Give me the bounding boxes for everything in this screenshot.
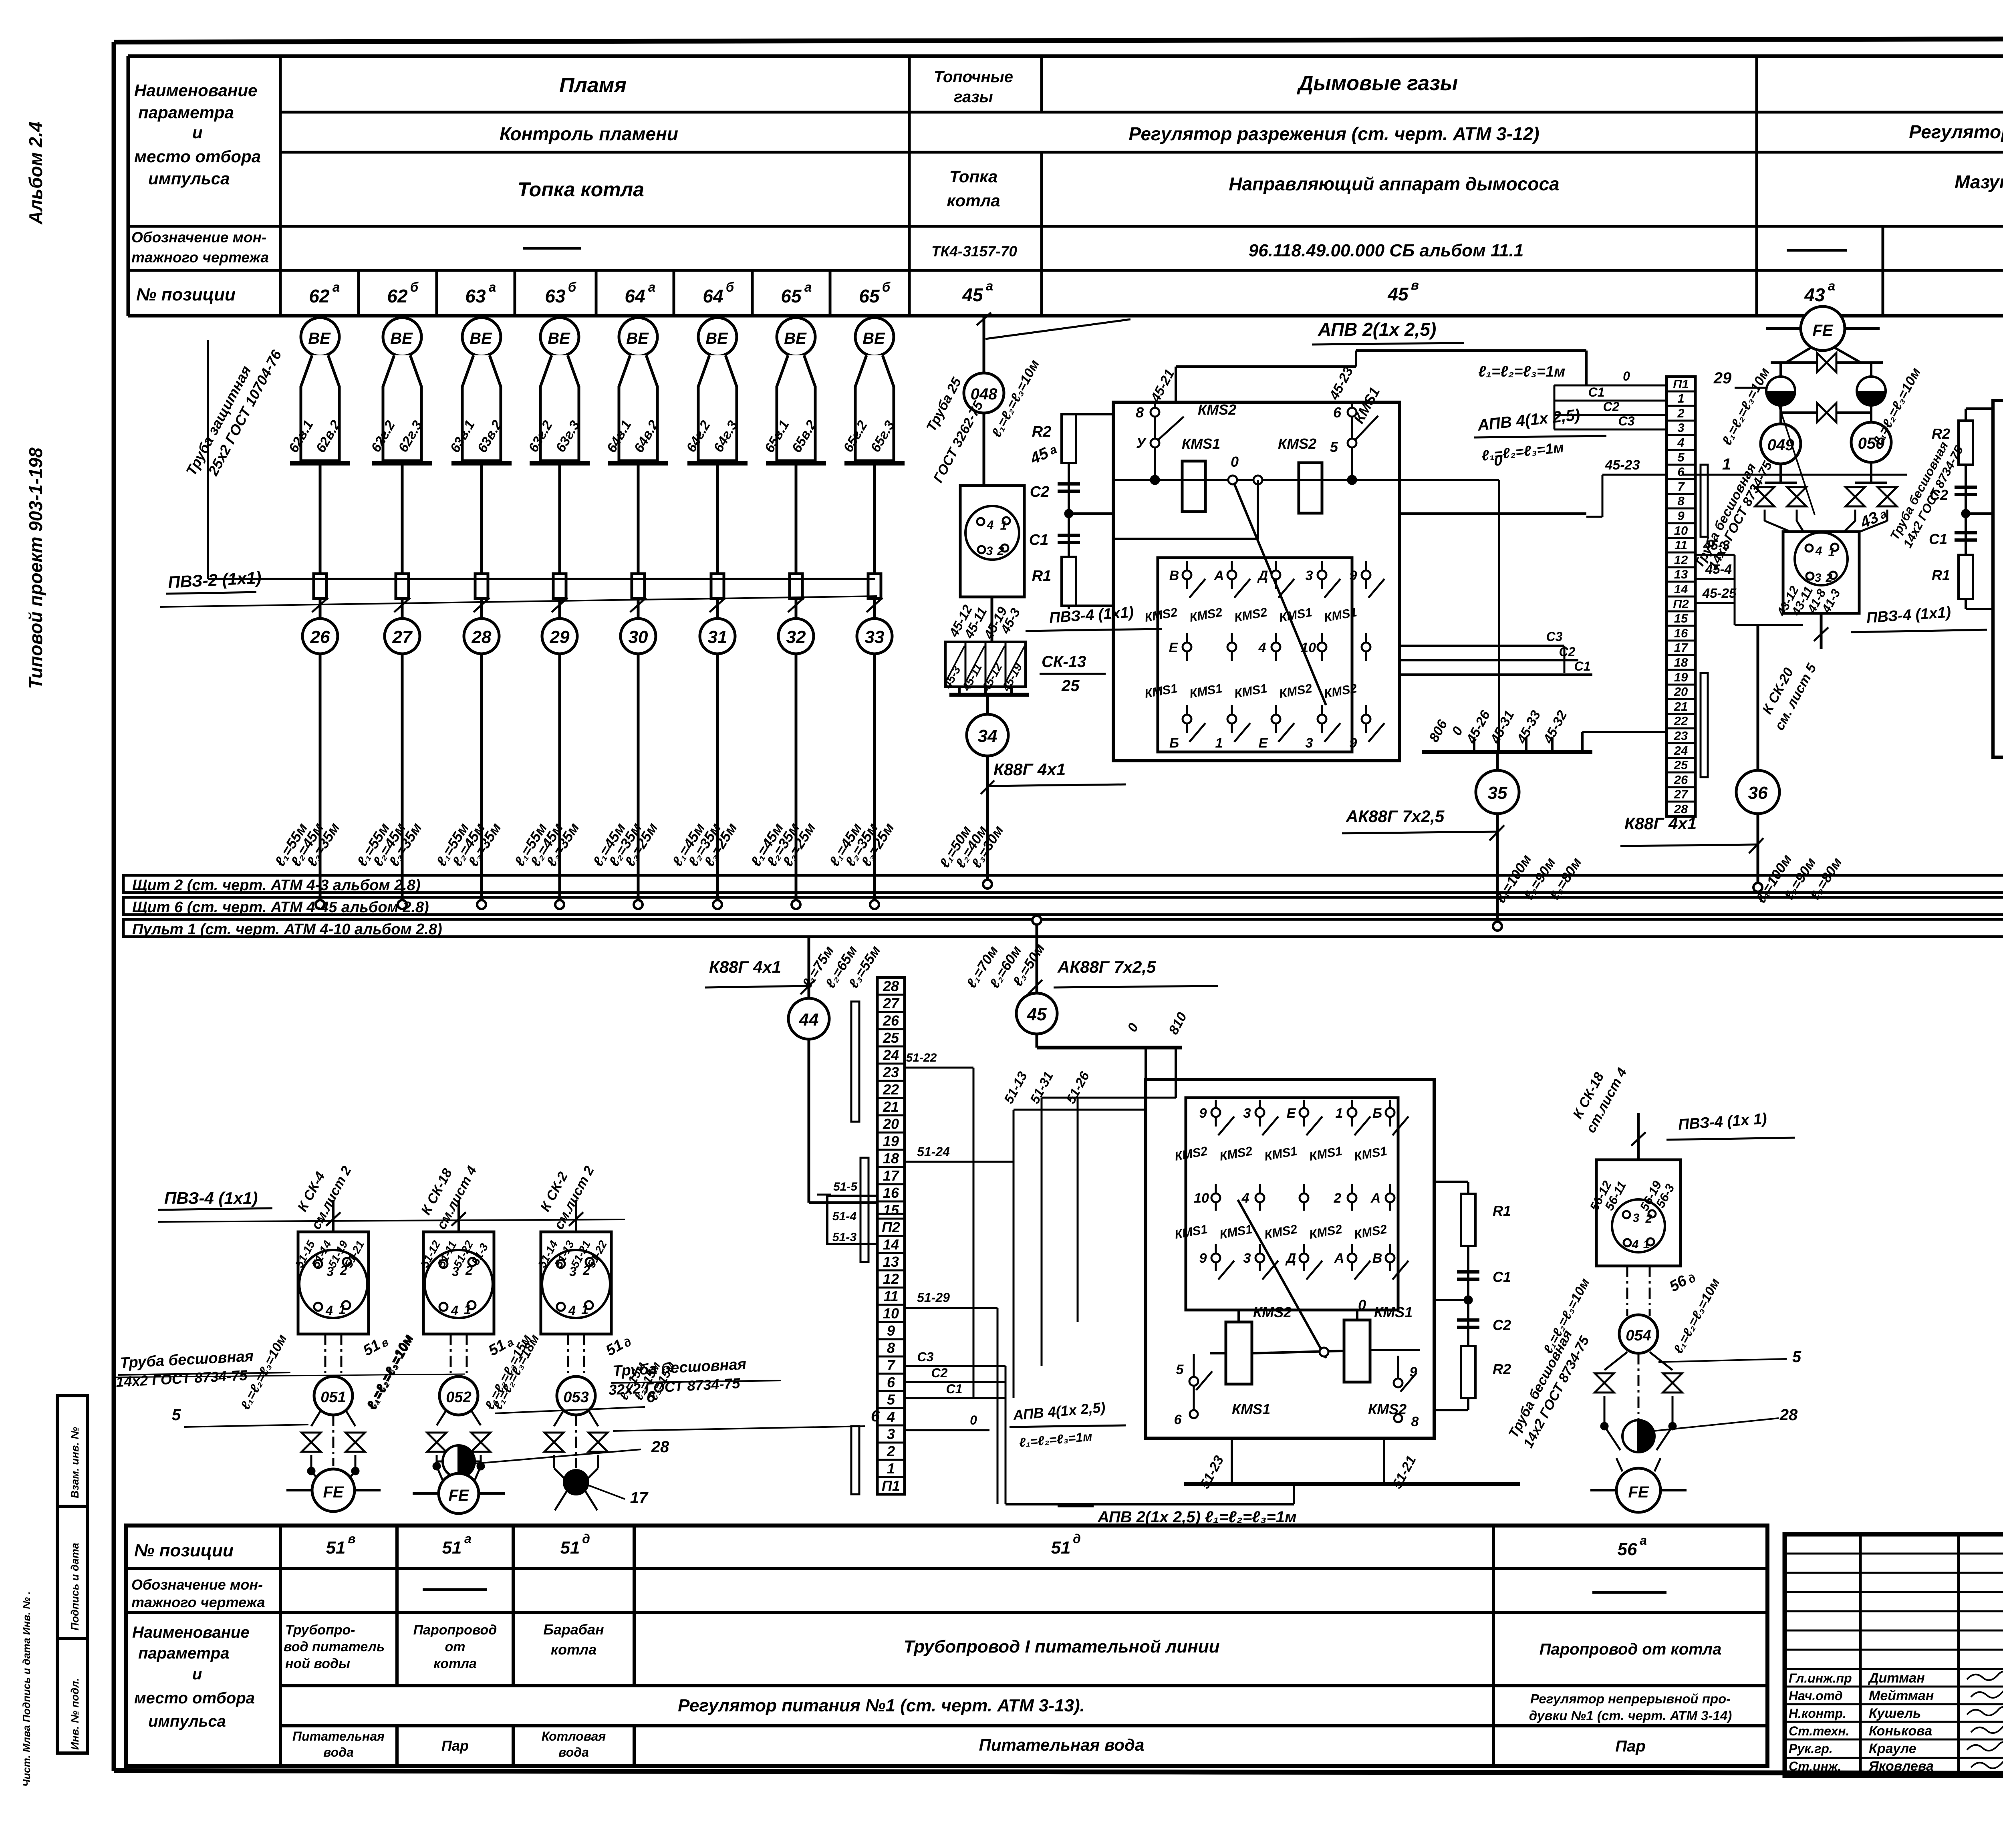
svg-text:В: В <box>1372 1251 1382 1266</box>
svg-text:С2: С2 <box>931 1366 948 1380</box>
svg-text:Пульт 1 (ст. черт. АТМ 4-10 ал: Пульт 1 (ст. черт. АТМ 4-10 альбом 2.8) <box>132 921 442 938</box>
svg-text:Б: Б <box>1169 736 1179 751</box>
svg-text:С1: С1 <box>1588 385 1605 399</box>
svg-text:АК88Г 7х2,5: АК88Г 7х2,5 <box>1057 957 1156 976</box>
svg-text:4: 4 <box>1632 1238 1639 1251</box>
svg-text:51: 51 <box>1051 1538 1071 1558</box>
svg-text:Крауле: Крауле <box>1869 1741 1916 1756</box>
valves below 049/050 <box>1683 393 1907 537</box>
svg-text:КМS2: КМS2 <box>1278 435 1316 452</box>
svg-text:Мазутопровод к котлу: Мазутопровод к котлу <box>1955 171 2003 192</box>
svg-text:б: б <box>410 280 419 294</box>
svg-text:62: 62 <box>309 286 330 306</box>
svg-text:К88Г 4х1: К88Г 4х1 <box>1624 814 1697 833</box>
svg-text:Е: Е <box>1259 736 1268 751</box>
relay box U1 (razrezhenie control) <box>1113 402 1400 761</box>
svg-text:12: 12 <box>883 1271 899 1287</box>
svg-text:1: 1 <box>1336 1106 1343 1121</box>
sensor BE 63в group with indicator 28 <box>433 318 512 909</box>
svg-text:1: 1 <box>339 1302 346 1317</box>
svg-text:28: 28 <box>883 978 899 994</box>
svg-text:22: 22 <box>1674 714 1688 728</box>
svg-text:импульса: импульса <box>148 1713 226 1730</box>
svg-text:а: а <box>489 280 496 294</box>
svg-text:а: а <box>804 280 812 294</box>
svg-text:А: А <box>1214 568 1224 583</box>
svg-text:3: 3 <box>986 544 993 558</box>
svg-text:Регулятор топлива (мазут) (: Регулятор топлива (мазут) (ст. черт. АТМ… <box>1909 121 2003 142</box>
svg-text:АК88Г 7х2,5: АК88Г 7х2,5 <box>1346 807 1445 826</box>
svg-text:054: 054 <box>1626 1327 1651 1344</box>
svg-text:2: 2 <box>465 1263 473 1278</box>
svg-text:51-29: 51-29 <box>917 1290 950 1305</box>
title block grid <box>1785 1534 2003 1776</box>
svg-text:4: 4 <box>1258 640 1266 655</box>
svg-text:6: 6 <box>871 1407 880 1425</box>
cable ПВЗ-4(1х1) line left <box>158 1189 625 1222</box>
X1 to box2 vertical wire bundle <box>904 1051 1176 1504</box>
wires U1 to strip <box>1148 319 1592 752</box>
svg-text:С2: С2 <box>1559 645 1576 659</box>
svg-text:Конькова: Конькова <box>1869 1723 1932 1739</box>
svg-text:1: 1 <box>1828 546 1835 559</box>
svg-text:96.118.49.00.000 СБ альбом: 96.118.49.00.000 СБ альбом 11.1 <box>1249 241 1523 260</box>
line 5 label <box>172 1406 308 1427</box>
bottom table texts <box>131 1532 1732 1759</box>
svg-text:64: 64 <box>625 286 645 306</box>
svg-text:25: 25 <box>883 1030 899 1046</box>
svg-text:R2: R2 <box>1932 425 1950 442</box>
svg-text:1: 1 <box>464 1302 471 1317</box>
svg-text:3: 3 <box>1815 571 1822 584</box>
svg-text:от: от <box>445 1639 465 1655</box>
svg-text:4: 4 <box>1677 435 1684 449</box>
svg-text:3: 3 <box>1677 421 1684 435</box>
svg-text:4: 4 <box>1241 1191 1249 1206</box>
svg-text:4: 4 <box>1815 544 1822 558</box>
svg-text:3: 3 <box>1633 1211 1640 1225</box>
svg-text:ТК4-3157-70: ТК4-3157-70 <box>931 243 1017 260</box>
svg-text:34: 34 <box>978 726 997 746</box>
pipe labels left group <box>114 1348 781 1398</box>
svg-text:24: 24 <box>883 1047 899 1063</box>
svg-text:ВЕ: ВЕ <box>626 330 649 347</box>
line 6 labels <box>495 1388 880 1431</box>
svg-text:ВЕ: ВЕ <box>705 330 728 347</box>
svg-text:Типовой проект 903-1-198: Типовой проект 903-1-198 <box>25 447 46 689</box>
svg-text:1: 1 <box>1722 455 1731 473</box>
svg-text:котла: котла <box>947 191 1000 210</box>
svg-text:19: 19 <box>883 1133 899 1149</box>
svg-text:14: 14 <box>883 1236 899 1253</box>
svg-text:Ст.техн.: Ст.техн. <box>1789 1724 1849 1738</box>
svg-text:15: 15 <box>883 1202 899 1218</box>
svg-text:45-23: 45-23 <box>1605 457 1640 473</box>
svg-text:51: 51 <box>560 1538 580 1558</box>
relay box U1 contact matrix <box>1143 561 1384 751</box>
left margin text small bottom <box>20 1591 32 1787</box>
svg-text:16: 16 <box>1674 626 1688 640</box>
svg-text:10: 10 <box>1301 640 1316 655</box>
svg-text:2: 2 <box>887 1443 895 1459</box>
svg-text:4: 4 <box>451 1303 458 1318</box>
svg-text:С2: С2 <box>1493 1317 1511 1333</box>
svg-text:9: 9 <box>1199 1251 1207 1266</box>
strip X2 right leads 45-3 45-4 45-25 <box>1695 538 1803 625</box>
svg-text:Обозначение мон-: Обозначение мон- <box>131 229 266 246</box>
svg-text:24: 24 <box>1674 744 1688 758</box>
svg-text:5: 5 <box>1176 1362 1184 1377</box>
svg-text:14: 14 <box>1674 582 1688 596</box>
svg-text:б: б <box>568 280 577 294</box>
svg-text:Н.контр.: Н.контр. <box>1789 1706 1846 1721</box>
svg-text:8: 8 <box>1411 1414 1419 1429</box>
svg-text:Питательная: Питательная <box>292 1729 385 1743</box>
X1 right leads С3 С2 С1 0 <box>904 1350 1006 1504</box>
protective pipe line Труба защитная <box>183 340 875 579</box>
svg-text:8: 8 <box>887 1340 895 1356</box>
svg-text:7: 7 <box>1677 480 1685 494</box>
svg-text:44: 44 <box>799 1010 819 1030</box>
svg-text:18: 18 <box>1674 655 1688 669</box>
svg-text:11: 11 <box>1675 538 1687 552</box>
sensor BE 62г group with indicator 27 <box>353 318 432 909</box>
sensor BE 65г group with indicator 33 <box>826 318 905 909</box>
svg-text:0: 0 <box>970 1413 977 1427</box>
cable АПВ4 label near box2 <box>1010 1399 1126 1450</box>
svg-text:30: 30 <box>629 627 648 647</box>
svg-text:8: 8 <box>1136 404 1144 421</box>
relay coils U2 <box>1174 1297 1420 1429</box>
svg-text:43: 43 <box>1804 284 1825 305</box>
bus Щит 2 <box>123 875 2003 894</box>
svg-text:6: 6 <box>1677 465 1685 479</box>
instrument 054 chain <box>1505 1266 1801 1512</box>
svg-text:параметра: параметра <box>138 1644 229 1662</box>
svg-text:Подпись и дата: Подпись и дата <box>69 1543 81 1630</box>
svg-text:С1: С1 <box>1929 531 1947 547</box>
svg-text:051: 051 <box>320 1389 346 1406</box>
svg-text:6: 6 <box>887 1374 895 1391</box>
svg-text:23: 23 <box>883 1064 899 1080</box>
svg-text:20: 20 <box>883 1116 899 1132</box>
svg-text:35: 35 <box>1488 783 1507 803</box>
svg-text:Нач.отд: Нач.отд <box>1789 1689 1843 1703</box>
svg-text:Паропровод: Паропровод <box>413 1622 497 1638</box>
connector 56а group <box>1570 1065 1795 1295</box>
svg-text:в: в <box>348 1532 355 1546</box>
svg-text:Обозначение мон-: Обозначение мон- <box>131 1576 263 1593</box>
svg-text:56: 56 <box>1618 1540 1637 1559</box>
svg-text:28: 28 <box>472 627 492 647</box>
svg-text:12: 12 <box>1674 553 1688 567</box>
header table grid <box>128 56 2003 316</box>
indicator circle 36 <box>1620 625 1845 906</box>
svg-text:место отбора: место отбора <box>134 147 261 166</box>
relay box U2 (feed regulator) <box>1146 1080 1434 1438</box>
svg-text:С3: С3 <box>917 1350 934 1364</box>
svg-text:С3: С3 <box>1546 629 1563 644</box>
relay box U1 internal contacts top <box>1113 385 1586 705</box>
svg-text:и: и <box>192 1665 202 1683</box>
svg-text:51-22: 51-22 <box>906 1051 937 1064</box>
svg-text:6: 6 <box>647 1388 656 1406</box>
svg-text:15: 15 <box>1674 611 1688 625</box>
svg-text:10: 10 <box>883 1305 899 1322</box>
svg-text:А: А <box>1334 1251 1344 1266</box>
svg-text:5: 5 <box>172 1406 181 1424</box>
svg-text:0: 0 <box>1623 369 1630 383</box>
svg-text:6: 6 <box>1174 1412 1182 1427</box>
svg-text:В: В <box>1169 568 1179 583</box>
svg-text:С2: С2 <box>1603 399 1620 414</box>
svg-text:дувки №1 (ст. черт. АТМ 3-14): дувки №1 (ст. черт. АТМ 3-14) <box>1529 1708 1732 1723</box>
svg-text:а: а <box>1828 278 1835 293</box>
svg-text:R1: R1 <box>1932 567 1950 583</box>
svg-text:ВЕ: ВЕ <box>308 330 331 347</box>
svg-text:Б: Б <box>1372 1106 1382 1121</box>
svg-text:Дитман: Дитман <box>1868 1671 1925 1686</box>
svg-text:вод питатель: вод питатель <box>284 1639 385 1655</box>
svg-text:К88Г 4х1: К88Г 4х1 <box>993 760 1066 779</box>
instrument circle 052 chain <box>363 1332 669 1513</box>
svg-text:Наименование: Наименование <box>134 81 257 100</box>
svg-text:13: 13 <box>1674 567 1688 581</box>
svg-text:Паропровод от котла: Паропровод от котла <box>1540 1640 1722 1658</box>
svg-text:7: 7 <box>887 1357 896 1373</box>
svg-text:5: 5 <box>887 1391 895 1408</box>
connector 51а assembly <box>418 1163 516 1376</box>
svg-text:17: 17 <box>1674 641 1689 655</box>
svg-text:9: 9 <box>1350 568 1357 583</box>
svg-text:6: 6 <box>1333 404 1342 421</box>
sensor BE 63г group with indicator 29 <box>511 318 590 909</box>
svg-text:ВЕ: ВЕ <box>862 330 885 347</box>
svg-text:45-25: 45-25 <box>1702 586 1737 601</box>
svg-text:а: а <box>986 278 993 293</box>
svg-text:63: 63 <box>545 286 566 306</box>
svg-text:К88Г 4х1: К88Г 4х1 <box>709 957 781 976</box>
svg-text:тажного чертежа: тажного чертежа <box>131 249 269 266</box>
svg-text:котла: котла <box>551 1641 596 1658</box>
svg-text:КМS2: КМS2 <box>1198 401 1236 418</box>
svg-text:Регулятор питания №1 (ст.: Регулятор питания №1 (ст. черт. АТМ 3-13… <box>678 1696 1085 1715</box>
svg-text:053: 053 <box>563 1389 588 1406</box>
bus Пульт 1 <box>123 919 2003 938</box>
terminal block СК-13 <box>941 642 1106 695</box>
svg-text:П1: П1 <box>1673 377 1689 391</box>
svg-text:65: 65 <box>781 286 802 306</box>
flow sensor FE (mazut) <box>1766 306 1880 363</box>
svg-text:Барабан: Барабан <box>543 1621 604 1638</box>
svg-text:тажного чертежа: тажного чертежа <box>131 1594 265 1610</box>
svg-text:Взам. инв. №: Взам. инв. № <box>69 1427 81 1498</box>
svg-text:место отбора: место отбора <box>134 1689 255 1707</box>
svg-text:Ст.инж.: Ст.инж. <box>1789 1759 1841 1773</box>
relay box U3 (fuel regulator) <box>1993 401 2003 757</box>
svg-text:052: 052 <box>446 1389 471 1406</box>
svg-text:2: 2 <box>1826 571 1833 584</box>
svg-text:С1: С1 <box>946 1382 963 1396</box>
svg-text:Пламя: Пламя <box>559 74 627 97</box>
svg-text:ВЕ: ВЕ <box>548 330 570 347</box>
svg-text:0: 0 <box>1358 1297 1366 1313</box>
svg-text:45: 45 <box>962 284 983 305</box>
svg-text:3: 3 <box>1243 1106 1251 1121</box>
sensor BE 62в group with indicator 26 <box>271 318 350 909</box>
svg-text:Дымовые газы: Дымовые газы <box>1297 72 1458 95</box>
svg-text:б: б <box>882 280 891 294</box>
svg-text:в: в <box>1411 278 1419 292</box>
indicator circle 34 <box>937 695 1126 889</box>
cable ПВЗ-4(1х1) at 43а <box>1759 604 1987 733</box>
left margin text: Альбом 2.4 <box>25 122 46 225</box>
svg-text:Котловая: Котловая <box>542 1729 606 1743</box>
svg-text:3: 3 <box>1306 568 1313 583</box>
svg-text:31: 31 <box>708 627 727 647</box>
svg-text:3: 3 <box>1243 1251 1251 1266</box>
svg-text:51-24: 51-24 <box>917 1145 950 1159</box>
svg-text:16: 16 <box>883 1185 899 1201</box>
svg-text:Регулятор непрерывной про-: Регулятор непрерывной про- <box>1530 1691 1731 1706</box>
svg-text:19: 19 <box>1674 670 1688 684</box>
cable ПВЗ-2(1х1) line <box>160 568 877 607</box>
svg-text:Инв. № подл.: Инв. № подл. <box>69 1678 81 1750</box>
svg-text:Кушель: Кушель <box>1869 1706 1921 1721</box>
connector 51д assembly <box>536 1163 633 1376</box>
svg-text:№ позиции: № позиции <box>134 1541 234 1560</box>
svg-text:С1: С1 <box>1574 659 1591 673</box>
svg-text:2: 2 <box>1677 406 1684 420</box>
svg-text:и: и <box>192 123 203 142</box>
svg-text:22: 22 <box>883 1081 899 1098</box>
svg-text:11: 11 <box>883 1288 898 1304</box>
header table texts <box>131 68 2003 306</box>
terminal strip X2 (45) <box>1666 377 1695 816</box>
svg-text:П1: П1 <box>882 1477 900 1494</box>
svg-text:23: 23 <box>1674 729 1688 743</box>
bus Щит 6 <box>123 897 2003 916</box>
svg-text:27: 27 <box>1674 787 1689 801</box>
svg-text:17: 17 <box>630 1489 649 1507</box>
strip X2 right brackets <box>1701 465 1708 777</box>
svg-text:С3: С3 <box>1618 414 1635 428</box>
R C components left of U1 <box>1029 414 1113 609</box>
svg-text:Регулятор разрежения (ст. ч: Регулятор разрежения (ст. черт. АТМ 3-12… <box>1128 123 1539 144</box>
svg-text:3: 3 <box>1306 736 1313 751</box>
svg-text:Альбом 2.4: Альбом 2.4 <box>25 122 46 225</box>
signature rows texts <box>1789 1671 2003 1774</box>
svg-text:51-3: 51-3 <box>832 1231 856 1244</box>
svg-text:63: 63 <box>465 286 486 306</box>
svg-text:4: 4 <box>987 518 994 532</box>
svg-text:33: 33 <box>865 627 885 647</box>
left margin strip boxes <box>57 1396 87 1753</box>
svg-text:28: 28 <box>651 1438 669 1456</box>
svg-text:9: 9 <box>1199 1106 1207 1121</box>
svg-text:Чист. Млва Подпись и дата Ин: Чист. Млва Подпись и дата Инв. № . <box>20 1591 32 1787</box>
svg-text:17: 17 <box>883 1167 900 1184</box>
svg-text:0: 0 <box>1231 453 1239 470</box>
svg-text:Наименование: Наименование <box>132 1624 250 1641</box>
heavy bar 0/810 to relay box 2 <box>1037 1010 1190 1098</box>
svg-text:2: 2 <box>1334 1191 1342 1206</box>
collector bar to 35 <box>1422 708 1666 752</box>
svg-text:Е: Е <box>1169 640 1179 655</box>
svg-text:Топка: Топка <box>949 167 998 186</box>
svg-text:20: 20 <box>1674 685 1688 699</box>
svg-text:8: 8 <box>1677 494 1685 508</box>
svg-text:А: А <box>1370 1191 1381 1206</box>
svg-text:1: 1 <box>1000 519 1007 532</box>
svg-text:СК-13: СК-13 <box>1042 653 1086 671</box>
instrument circle 050 <box>1851 365 1924 462</box>
svg-text:51: 51 <box>326 1538 346 1558</box>
svg-text:R1: R1 <box>1493 1203 1511 1219</box>
svg-text:вода: вода <box>323 1745 354 1759</box>
svg-text:29: 29 <box>550 627 570 647</box>
svg-text:КМS1: КМS1 <box>1182 435 1220 452</box>
indicator circle 44 <box>705 937 884 1203</box>
connector 51в assembly <box>293 1163 391 1376</box>
svg-text:Яковлева: Яковлева <box>1868 1759 1934 1774</box>
svg-text:32: 32 <box>786 627 806 647</box>
svg-text:27: 27 <box>883 995 900 1012</box>
R C components left of U3 <box>1887 409 1993 609</box>
instrument circle 048 <box>923 312 1130 485</box>
svg-text:Д: Д <box>1285 1251 1296 1266</box>
svg-text:АПВ 2(1х 2,5): АПВ 2(1х 2,5) <box>1318 319 1436 340</box>
svg-text:С1: С1 <box>1493 1269 1511 1285</box>
svg-text:П2: П2 <box>882 1219 900 1235</box>
svg-text:13: 13 <box>883 1253 899 1270</box>
strip X2 left leads <box>1474 369 1666 517</box>
svg-text:9: 9 <box>1677 509 1685 523</box>
svg-text:ВЕ: ВЕ <box>470 330 492 347</box>
svg-text:FЕ: FЕ <box>448 1487 469 1504</box>
svg-text:45: 45 <box>1027 1005 1047 1024</box>
svg-text:FЕ: FЕ <box>1628 1483 1649 1501</box>
svg-text:64: 64 <box>703 286 723 306</box>
svg-text:С1: С1 <box>1029 532 1049 548</box>
svg-text:Топочные: Топочные <box>934 68 1013 86</box>
svg-text:С2: С2 <box>1030 484 1050 500</box>
svg-text:Направляющий аппарат дым: Направляющий аппарат дымососа <box>1229 173 1559 194</box>
svg-text:П2: П2 <box>1673 597 1689 611</box>
strip X1 left brackets <box>851 1002 869 1494</box>
svg-text:21: 21 <box>883 1098 899 1115</box>
svg-text:4: 4 <box>887 1409 895 1425</box>
sensor BE 64г group with indicator 31 <box>669 318 748 909</box>
svg-text:АПВ 2(1х 2,5) ℓ₁=ℓ₂=ℓ₃=1м: АПВ 2(1х 2,5) ℓ₁=ℓ₂=ℓ₃=1м <box>1097 1508 1297 1526</box>
svg-text:1: 1 <box>887 1460 895 1477</box>
svg-text:65: 65 <box>859 286 880 306</box>
svg-text:1: 1 <box>1677 391 1684 405</box>
svg-text:ПВЗ-4 (1х1): ПВЗ-4 (1х1) <box>164 1189 258 1207</box>
svg-text:Питательная вода: Питательная вода <box>979 1735 1145 1754</box>
svg-text:45: 45 <box>1387 284 1409 304</box>
svg-text:27: 27 <box>392 627 413 647</box>
svg-text:ℓ₁=ℓ₂=ℓ₃=1м: ℓ₁=ℓ₂=ℓ₃=1м <box>1478 363 1565 380</box>
svg-text:параметра: параметра <box>138 103 234 122</box>
svg-text:Пар: Пар <box>441 1737 469 1754</box>
svg-text:б: б <box>726 280 735 294</box>
svg-text:Контроль пламени: Контроль пламени <box>500 123 678 144</box>
svg-text:д: д <box>582 1532 590 1546</box>
valve network above 049/050 <box>1713 353 1883 388</box>
svg-text:газы: газы <box>954 88 993 106</box>
svg-text:26: 26 <box>883 1012 899 1029</box>
